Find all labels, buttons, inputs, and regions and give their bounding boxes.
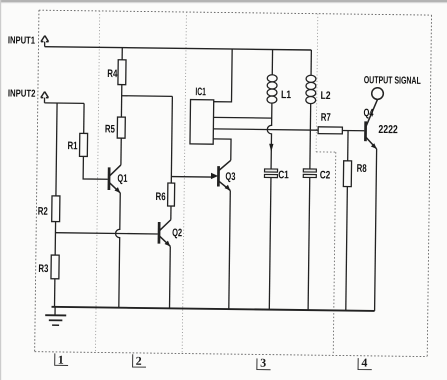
dashed divider section 3/4 lower <box>333 152 336 355</box>
svg-text:2222: 2222 <box>378 124 397 136</box>
inductor L2 <box>306 75 316 104</box>
wire R4 to R5 <box>120 85 122 117</box>
wire R6 feed vertical <box>171 96 172 183</box>
svg-text:R4: R4 <box>107 68 118 80</box>
wire INPUT1 rail <box>45 47 312 50</box>
svg-text:Q1: Q1 <box>117 173 127 185</box>
transistor Q4 <box>365 99 377 149</box>
capacitor C2 <box>303 169 316 178</box>
wire Q1 emitter vertical with hop <box>115 193 121 308</box>
wire INPUT2 horizontal <box>44 102 84 104</box>
op-amp U1 IC1 box <box>190 100 214 145</box>
wire INPUT1 stub <box>44 42 46 47</box>
resistor R1 <box>80 133 88 156</box>
wire R4R5 junction horizontal <box>122 95 173 98</box>
dashed outer border top <box>39 10 432 15</box>
svg-text:Q3: Q3 <box>225 171 235 183</box>
dashed outer border left <box>35 10 39 351</box>
inductor L1 <box>267 75 277 104</box>
wire Q2 emitter vertical <box>169 246 172 308</box>
wire R2 R3 column <box>55 103 58 307</box>
resistor R3 <box>51 255 59 279</box>
wire Q3 emitter vertical <box>229 190 230 309</box>
transistor Q2 <box>159 220 171 247</box>
resistor R4 <box>118 60 126 85</box>
resistor R7 <box>318 127 342 134</box>
wire Q4 emitter vertical <box>375 149 377 311</box>
dashed divider section 3/4 jog <box>316 151 336 153</box>
section bracket 2 <box>133 354 147 367</box>
svg-text:R6: R6 <box>156 191 166 203</box>
scan artifact top strip <box>0 0 447 2</box>
wire IC1 pin3 to tank and R7 <box>213 129 318 130</box>
wire R8 top <box>347 131 349 161</box>
capacitor C1 <box>264 169 277 178</box>
wire L1 bottom with hop over pin3 wire <box>267 103 272 169</box>
svg-text:L1: L1 <box>281 89 291 101</box>
wire node to Q3 base <box>171 176 211 179</box>
wire C2 to bus <box>308 177 310 310</box>
wire IC1 pin2 to L1 node <box>214 116 272 119</box>
resistor R6 <box>168 183 175 206</box>
wire L1 top <box>271 50 273 75</box>
svg-text:INPUT2: INPUT2 <box>8 88 36 99</box>
svg-text:R1: R1 <box>67 140 77 152</box>
svg-text:L2: L2 <box>321 90 331 102</box>
svg-text:IC1: IC1 <box>195 86 206 98</box>
dashed divider section 2/3 <box>182 12 186 353</box>
resistor R5 <box>117 117 125 138</box>
wire INPUT2 stub <box>43 98 45 103</box>
wire IC1 pin1 to INPUT1 rail <box>214 49 232 102</box>
wire R1 branch vertical <box>83 103 85 133</box>
signal arrow on C1 branch <box>269 144 273 152</box>
svg-text:C2: C2 <box>320 169 331 181</box>
wire IC1 pin4 to Q3 collector <box>213 139 231 160</box>
section bracket 1 <box>55 353 69 365</box>
svg-text:R5: R5 <box>105 123 115 135</box>
signal arrow into Q3 base <box>211 173 218 179</box>
svg-text:3: 3 <box>260 356 266 370</box>
wire R1 to Q1 base <box>83 156 108 179</box>
dashed outer border bottom <box>35 352 428 357</box>
wire R4 top <box>121 48 123 60</box>
svg-text:2: 2 <box>136 354 142 368</box>
svg-text:Q2: Q2 <box>172 227 182 239</box>
svg-text:1: 1 <box>58 353 64 367</box>
dashed divider section 3/4 upper <box>316 14 318 152</box>
terminal INPUT1 <box>41 36 49 42</box>
ground symbol <box>45 315 66 325</box>
wire L2 top from rail corner <box>310 50 312 75</box>
svg-text:C1: C1 <box>278 169 289 181</box>
svg-text:4: 4 <box>361 356 367 370</box>
wire R7 to Q4 base <box>342 129 364 131</box>
svg-text:Q4: Q4 <box>363 107 374 119</box>
transistor Q1 <box>109 165 121 193</box>
wire R5 to Q1 collector <box>120 138 122 165</box>
svg-text:R2: R2 <box>38 206 48 218</box>
svg-text:R3: R3 <box>38 263 48 275</box>
wire R2R3 junction to Q2 base <box>55 233 157 234</box>
dashed outer border right <box>427 15 431 356</box>
wire Q2 collector vertical <box>170 206 172 220</box>
resistor R2 <box>52 196 60 222</box>
terminal INPUT2 <box>41 92 49 98</box>
svg-text:R8: R8 <box>357 163 367 175</box>
output terminal circle <box>372 88 384 100</box>
ground bus <box>52 307 375 311</box>
dashed divider section 1/2 <box>95 11 99 352</box>
svg-text:INPUT1: INPUT1 <box>8 35 35 46</box>
svg-text:OUTPUT SIGNAL: OUTPUT SIGNAL <box>364 75 421 87</box>
scan artifact left strip <box>0 0 1 380</box>
wire L2 bottom to C2 <box>309 104 312 169</box>
section bracket 4 <box>358 358 372 370</box>
resistor R8 <box>343 161 351 187</box>
section bracket 3 <box>257 358 271 369</box>
svg-text:R7: R7 <box>321 112 331 124</box>
wire C1 to bus <box>269 178 271 310</box>
wire R8 bottom to bus <box>346 187 348 311</box>
transistor Q3 <box>218 160 230 190</box>
ground stub <box>54 307 56 315</box>
